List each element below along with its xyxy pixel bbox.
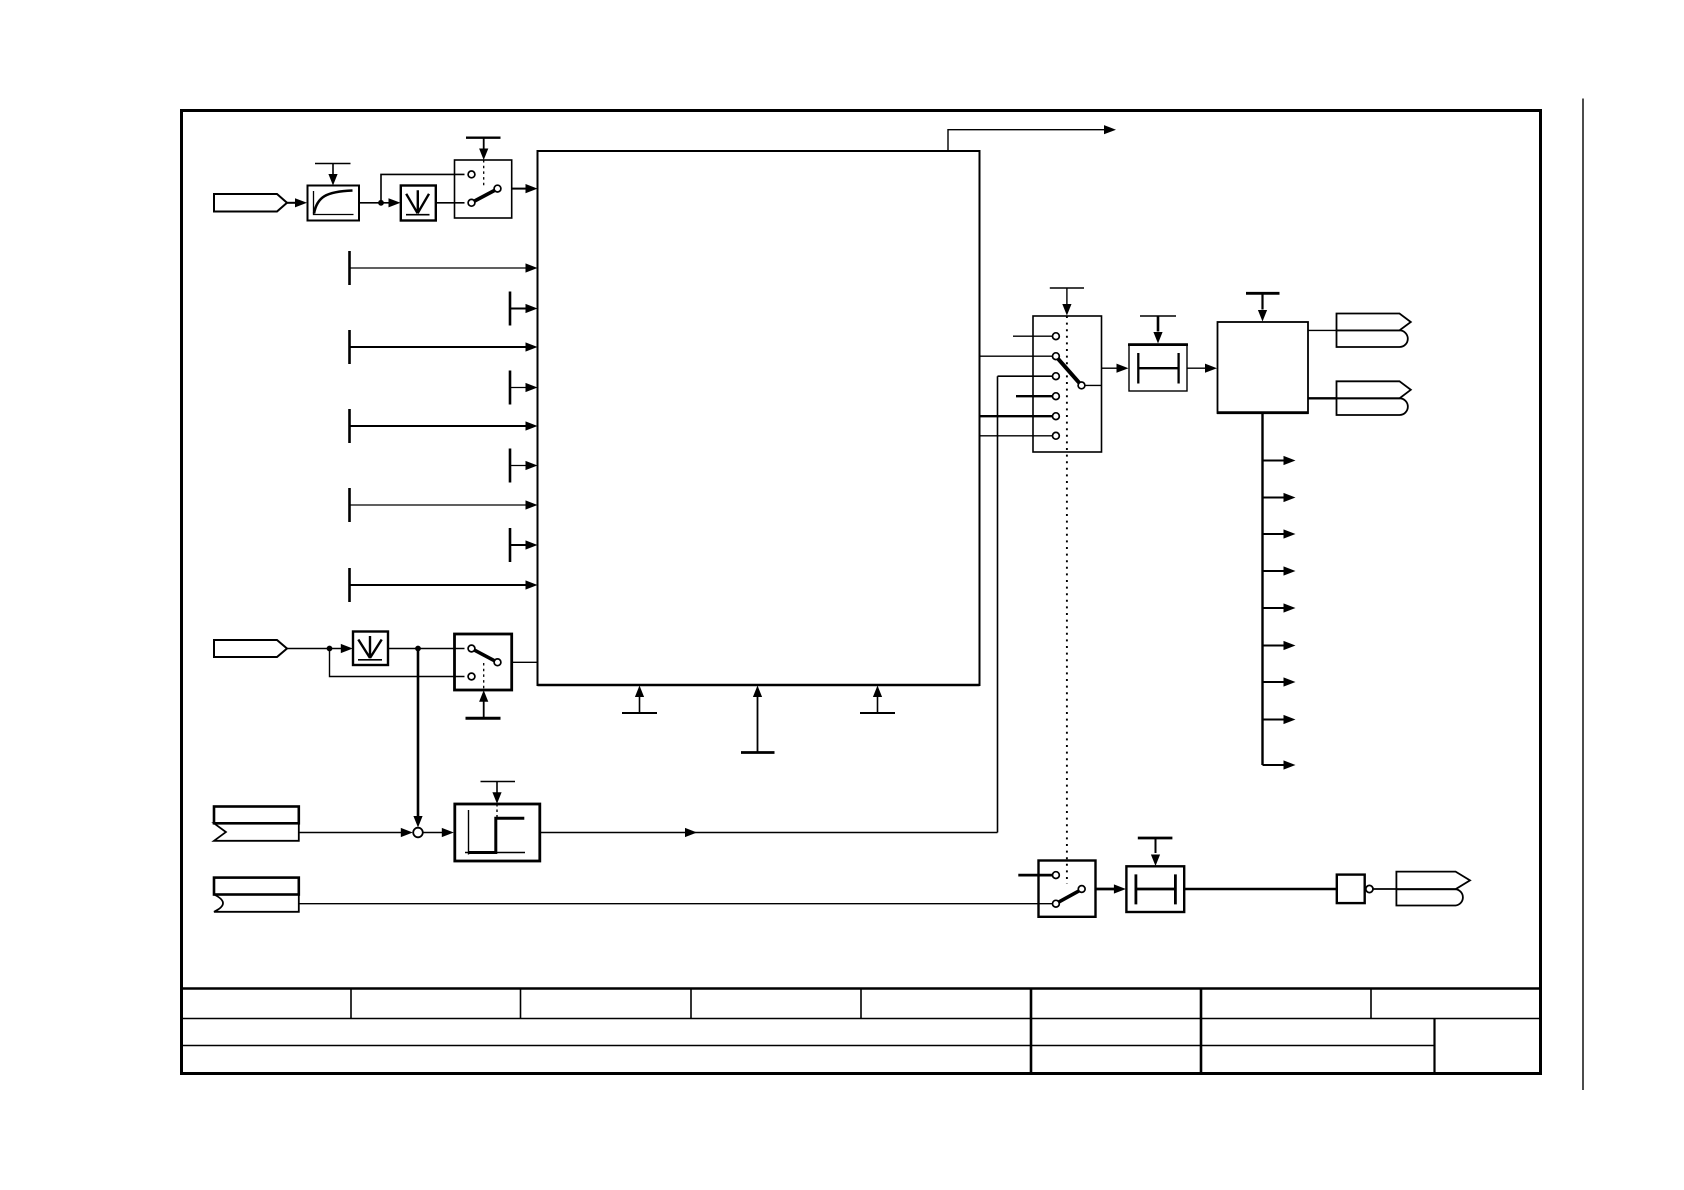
parameter T-bar above selector	[1050, 287, 1084, 289]
title block column line b	[520, 989, 522, 1019]
parameter T-bar above limiter H1	[1140, 315, 1176, 317]
output stage block	[1218, 322, 1309, 413]
title block column line a	[350, 989, 352, 1019]
binector input stub 2	[509, 371, 512, 405]
switch 1 lever	[475, 190, 495, 201]
title block row divider 1	[182, 1018, 1541, 1020]
feedback wire to switch 2 lower contact	[330, 649, 465, 677]
selector contact circles	[1053, 333, 1060, 340]
main function block	[538, 151, 980, 685]
junction dot A	[378, 200, 384, 206]
wire output stage to connector X7	[1308, 397, 1337, 399]
wire threshold block output to selector input 3	[540, 832, 998, 834]
parameter T-bar above switch 1	[466, 136, 501, 138]
wire connector X3 to summing point	[299, 832, 402, 834]
changeover switch 2	[455, 634, 512, 690]
output connector X7	[1337, 381, 1411, 398]
broadcast wire down from output stage	[1261, 413, 1263, 765]
changeover switch 3	[1039, 861, 1096, 917]
title block column line e thick	[1030, 989, 1033, 1074]
broadcast arrow 5	[1263, 607, 1285, 609]
wire main block to selector input 6	[980, 435, 1053, 437]
wire main block to selector input 5	[980, 415, 1053, 417]
wire switch 3 output to limiter H2	[1096, 888, 1115, 891]
binector input line 4	[348, 488, 351, 522]
parameter arrow up 3 below main block	[860, 712, 895, 714]
switch 3 contact circles	[1053, 872, 1060, 879]
binector input line 1	[348, 251, 351, 285]
title block column line c	[690, 989, 692, 1019]
selector lever	[1058, 359, 1079, 383]
inverter bubble	[1366, 885, 1373, 892]
wire switch 1 output to main block	[512, 188, 527, 190]
wire limiter 2 to switch 2	[388, 648, 465, 650]
page edge line right	[1582, 99, 1584, 1091]
output connector X5	[1396, 872, 1470, 890]
wire output stage to connector X6	[1308, 329, 1337, 331]
title block top line	[182, 987, 1541, 990]
wire connector X4 to switch 3 lower contact	[299, 903, 1053, 905]
title block row divider 2	[182, 1045, 1435, 1047]
binector input line 3	[348, 409, 351, 443]
switch 2 dashed control line	[483, 663, 485, 689]
signal connector X3 chevron type	[214, 807, 299, 824]
junction dot C	[415, 646, 421, 652]
stub wire selector input 4	[1016, 395, 1053, 397]
wire smoothing to limiter	[359, 202, 390, 204]
wire connector X1 to smoothing block	[287, 202, 297, 204]
inverter block	[1337, 875, 1365, 904]
switch 1 contact circles	[468, 171, 475, 178]
switch 1 dashed control line	[483, 160, 485, 186]
input connector X2 supplementary setpoint	[214, 640, 287, 657]
binector input line 2	[348, 330, 351, 364]
wire junction C down to summing point	[417, 649, 420, 817]
broadcast arrow 6	[1263, 645, 1285, 647]
wire summing point to threshold block	[423, 832, 443, 834]
broadcast arrow 9	[1263, 764, 1285, 766]
limiter block 1	[401, 186, 436, 221]
output connector X6	[1337, 314, 1411, 331]
binector input stub 4	[509, 528, 512, 562]
wire connector X2 to limiter 2	[287, 648, 341, 650]
broadcast arrow 2	[1263, 497, 1285, 499]
wire limiter 1 to switch lower contact	[436, 202, 465, 204]
parameter T-bar above threshold block	[481, 781, 516, 783]
parameter T-bar below switch 2	[466, 717, 501, 720]
broadcast arrow 7	[1263, 681, 1285, 683]
parameter T-bar above output stage block	[1246, 292, 1280, 295]
binary threshold block	[455, 804, 540, 861]
title block column line g	[1370, 989, 1372, 1019]
smoothing block PT1	[308, 186, 360, 221]
wire main block top output	[948, 130, 1104, 151]
input connector X1 speed setpoint	[214, 194, 287, 212]
junction dot B	[327, 646, 333, 652]
wire selector pivot to box edge	[1085, 384, 1102, 386]
binector input line 5	[348, 568, 351, 602]
stub wire switch 3 upper contact	[1018, 874, 1052, 877]
broadcast arrow 4	[1263, 570, 1285, 572]
signal connector X4 rounded type	[214, 878, 299, 895]
wire limiter H2 to inverter	[1184, 888, 1337, 890]
switch 2 contact circles	[468, 645, 475, 652]
wire inverter to output connector X5	[1373, 888, 1396, 890]
broadcast arrow 1	[1263, 460, 1285, 462]
parameter T-bar above smoothing block	[315, 163, 351, 165]
parameter arrow up 1 below main block	[622, 712, 657, 714]
wire limiter H1 to output block	[1187, 367, 1206, 369]
wire switch 2 output to main block	[512, 661, 538, 663]
parameter T-bar above limiter H2	[1138, 837, 1173, 840]
page border frame	[182, 111, 1541, 1074]
switch 2 lever	[475, 650, 495, 661]
changeover switch 1	[455, 160, 512, 218]
limiter block H2	[1126, 866, 1184, 912]
limiter block H1	[1129, 344, 1187, 391]
title block column line h	[1433, 1019, 1435, 1074]
switch 3 lever	[1059, 891, 1079, 902]
title block column line d	[860, 989, 862, 1019]
wire selector output to limiter H1	[1102, 367, 1118, 369]
stub wire selector input 1	[1013, 335, 1053, 337]
broadcast arrow 3	[1263, 533, 1285, 535]
binector input stub 3	[509, 449, 512, 483]
dotted control line selector to switch 3	[1066, 316, 1068, 884]
wire main block to selector input 2	[980, 355, 1053, 357]
broadcast arrow 8	[1263, 719, 1285, 721]
parameter arrow up 2 below main block	[741, 751, 775, 754]
limiter block 2	[353, 632, 388, 666]
summing point	[413, 828, 423, 838]
selector switch box	[1033, 316, 1102, 452]
binector input stub 1	[509, 292, 512, 326]
feedback wire to switch upper contact	[381, 174, 465, 202]
title block column line f thick	[1200, 989, 1203, 1074]
